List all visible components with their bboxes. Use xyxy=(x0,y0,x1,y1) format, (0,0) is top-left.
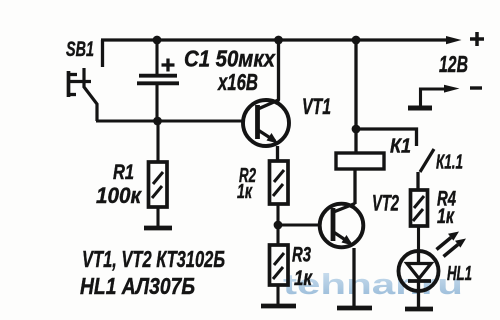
wire VT2 emitter to ground xyxy=(352,248,355,307)
resistor R4 xyxy=(411,190,428,250)
node plus terminal label + xyxy=(470,32,484,46)
transistor VT1 xyxy=(243,100,289,147)
wire minus arrowhead xyxy=(444,85,460,93)
node junction dot relay wire on rail xyxy=(352,36,361,45)
transistor VT1 emitter arrowhead xyxy=(267,133,279,144)
wire rail to relay K1 xyxy=(354,40,357,153)
ground under VT2 emitter xyxy=(337,306,372,311)
resistor R2 xyxy=(270,161,289,225)
node junction dot VT1 collector on rail xyxy=(274,36,283,45)
svg-text:VT1, VT2 КТ3102Б: VT1, VT2 КТ3102Б xyxy=(82,246,225,272)
svg-text:х16В: х16В xyxy=(217,69,258,95)
wire K1 coil to VT2 collector xyxy=(353,170,356,204)
switch SB1 pushbutton actuator xyxy=(68,71,91,97)
svg-text:12В: 12В xyxy=(439,51,468,77)
wire VT1 emitter to R2 xyxy=(276,146,279,162)
transistor VT2 emitter arrowhead xyxy=(342,235,354,246)
svg-text:HL1 АЛ307Б: HL1 АЛ307Б xyxy=(80,273,195,299)
node junction dot K1.1 branch xyxy=(352,125,361,134)
capacitor C1 polarity plus xyxy=(162,59,175,72)
relay K1 coil xyxy=(336,153,384,169)
wire R2/R3 junction to VT2 base xyxy=(278,223,319,226)
resistor R3 xyxy=(270,225,289,305)
node junction dot R2/R3 xyxy=(274,221,283,230)
svg-text:SB1: SB1 xyxy=(66,38,94,61)
svg-text:R1: R1 xyxy=(113,161,134,184)
wire top rail arrowhead to + terminal xyxy=(446,36,462,44)
wire minus terminal stem xyxy=(421,89,445,107)
wire VT1 collector to rail xyxy=(277,40,280,100)
svg-text:1к: 1к xyxy=(437,205,455,228)
svg-text:C1 50мкх: C1 50мкх xyxy=(184,46,276,72)
ground under R3 xyxy=(261,304,296,309)
svg-text:R3: R3 xyxy=(292,244,311,267)
transistor VT2 xyxy=(320,204,364,248)
node junction dot base wire xyxy=(153,117,162,126)
svg-text:1к: 1к xyxy=(294,267,313,290)
node minus label - xyxy=(470,86,482,89)
svg-text:HL1: HL1 xyxy=(447,263,472,285)
svg-text:К1: К1 xyxy=(390,136,411,158)
wire base node horizontal (SB1/C1/R1 to VT1 base) xyxy=(96,119,243,122)
contact K1.1 blade xyxy=(420,149,434,172)
svg-text:VT1: VT1 xyxy=(302,94,331,119)
switch SB1 moving blade xyxy=(84,68,97,121)
wire K1.1 branch L-shape xyxy=(356,129,417,146)
svg-text:VT2: VT2 xyxy=(372,191,400,216)
wire K1.1 to R4 xyxy=(416,172,419,190)
node junction dot C1 top on rail xyxy=(153,36,162,45)
wire top supply rail xyxy=(101,38,450,41)
node minus terminal bar xyxy=(408,106,432,111)
LED HL1 emission arrows xyxy=(437,232,467,257)
wire rail drop to SB1 fixed contact xyxy=(101,40,104,67)
capacitor C1 xyxy=(137,40,179,121)
ground under R1 xyxy=(144,226,172,231)
ground under HL1 xyxy=(405,307,433,312)
svg-text:100к: 100к xyxy=(96,183,143,208)
svg-text:К1.1: К1.1 xyxy=(436,152,463,174)
resistor R1 xyxy=(149,121,168,227)
LED HL1 xyxy=(399,250,439,307)
svg-text:1к: 1к xyxy=(237,181,253,203)
